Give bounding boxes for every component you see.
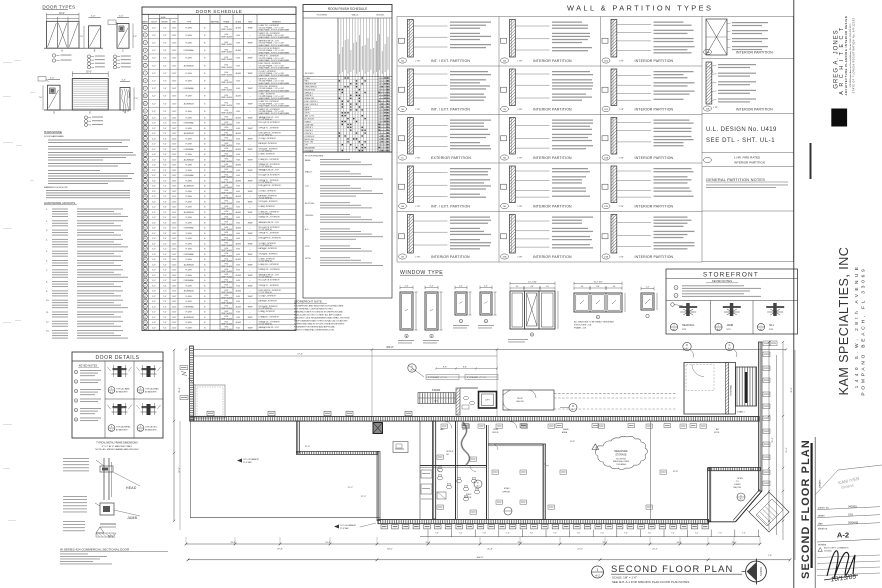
svg-text:HEAD: HEAD	[126, 486, 137, 490]
svg-text:ALUM: ALUM	[236, 164, 242, 167]
svg-text:3'-0": 3'-0"	[152, 96, 156, 98]
window type C	[453, 286, 472, 329]
svg-text:4" X 25" VIEW GL.: 4" X 25" VIEW GL.	[259, 135, 274, 137]
svg-text:7'-0": 7'-0"	[163, 228, 167, 230]
bottom dimension row2	[185, 537, 762, 545]
svg-text:1 3/4": 1 3/4"	[172, 317, 177, 319]
svg-text:7'-0": 7'-0"	[80, 36, 84, 38]
svg-text:TEMP GLASS: TEMP GLASS	[221, 212, 233, 215]
svg-text:FLUSH: FLUSH	[186, 222, 193, 224]
svg-text:7'-0": 7'-0"	[163, 306, 167, 308]
svg-text:HARDWARE GROUPS: HARDWARE GROUPS	[44, 201, 75, 205]
svg-text:FLUSH: FLUSH	[186, 96, 193, 98]
svg-text:LOBBY DR. - EXTERIOR: LOBBY DR. - EXTERIOR	[259, 159, 280, 161]
svg-text:3'-0": 3'-0"	[152, 149, 156, 151]
svg-text:ENGINEER FOR REVIEW AND APPROV: ENGINEER FOR REVIEW AND APPROVAL	[294, 326, 336, 329]
svg-text:ALUMINUM: ALUMINUM	[184, 211, 194, 214]
svg-text:3'-0": 3'-0"	[152, 43, 156, 45]
corridor S-curve wall	[461, 421, 469, 465]
svg-text:WAREHOUSE DR. - EXT.: WAREHOUSE DR. - EXT.	[259, 168, 280, 171]
svg-text:STAIR T DR. - EXTERIOR: STAIR T DR. - EXTERIOR	[259, 268, 281, 271]
svg-text:TEMP GLASS: TEMP GLASS	[221, 317, 233, 320]
svg-text:W SERIES 424 COMMERCIAL SECTIO: W SERIES 424 COMMERCIAL SECTIONAL DOOR	[60, 548, 130, 552]
svg-text:H.M.: H.M.	[236, 170, 240, 172]
svg-text:WHSE: WHSE	[563, 429, 569, 431]
svg-text:STOR.: STOR.	[305, 113, 311, 115]
svg-text:LOBBY - INTERIOR: LOBBY - INTERIOR	[259, 206, 276, 208]
svg-text:7'-0": 7'-0"	[163, 243, 167, 245]
svg-text:INTERIOR PARTITION: INTERIOR PARTITION	[533, 59, 572, 63]
svg-text:EXEC OFFICE 1: EXEC OFFICE 1	[305, 101, 318, 103]
svg-text:7'-0": 7'-0"	[163, 111, 167, 113]
svg-text:INT. / EXT. PARTITION: INT. / EXT. PARTITION	[431, 205, 470, 209]
svg-text:OFFICE 2: OFFICE 2	[305, 95, 313, 97]
door type A triple door elevation	[44, 13, 103, 53]
window type F three lite	[574, 282, 625, 330]
svg-text:A-2: A-2	[837, 531, 849, 540]
svg-text:STRUCTURE + DB: STRUCTURE + DB	[574, 325, 592, 327]
svg-text:7'-0": 7'-0"	[742, 533, 746, 535]
svg-text:FLUSH: FLUSH	[186, 128, 193, 130]
svg-text:RAIN GLASS DOORS TO MEET ALL A: RAIN GLASS DOORS TO MEET ALL APPLICABLE	[294, 314, 342, 317]
svg-text:3'-0": 3'-0"	[152, 301, 156, 303]
svg-text:TEMP GLASS: TEMP GLASS	[221, 128, 233, 131]
svg-text:1 3/4": 1 3/4"	[172, 207, 177, 209]
svg-text:WAREHOUSE DR. - EXT.: WAREHOUSE DR. - EXT.	[259, 326, 280, 329]
signature scrawl	[824, 551, 858, 584]
office labels	[440, 428, 754, 515]
svg-text:TEMP GLASS: TEMP GLASS	[221, 89, 233, 92]
svg-text:10: 10	[144, 96, 146, 98]
svg-text:TEMP: TEMP	[247, 128, 253, 130]
svg-text:5C: 5C	[401, 158, 404, 160]
svg-text:H.M.: H.M.	[236, 312, 240, 314]
svg-text:8'-8": 8'-8"	[463, 367, 467, 369]
svg-text:1 3/4": 1 3/4"	[172, 233, 177, 235]
svg-text:1 3/4": 1 3/4"	[172, 58, 177, 60]
svg-text:STAIR 1: STAIR 1	[305, 120, 312, 123]
svg-text:TEMP: TEMP	[247, 180, 253, 182]
svg-text:OFFICE: OFFICE	[502, 491, 511, 493]
svg-text:38: 38	[144, 249, 146, 251]
svg-text:OFFICE 1: OFFICE 1	[305, 92, 313, 94]
svg-text:INTERIOR PARTITION: INTERIOR PARTITION	[431, 255, 470, 259]
warning triangle	[592, 444, 599, 450]
svg-text:OVERHEAD: OVERHEAD	[184, 122, 195, 125]
svg-text:ALUM: ALUM	[236, 211, 242, 214]
svg-text:7'-0": 7'-0"	[163, 233, 167, 235]
svg-text:TEMP GLASS: TEMP GLASS	[221, 176, 233, 179]
diagonal corner wall	[708, 490, 762, 522]
svg-text:3'-0": 3'-0"	[152, 275, 156, 277]
svg-text:2'-4": 2'-4"	[430, 286, 434, 288]
svg-text:H.M.: H.M.	[236, 191, 240, 193]
svg-text:1 3/4": 1 3/4"	[172, 201, 177, 203]
svg-text:2 7/8": 2 7/8"	[517, 61, 522, 63]
svg-text:TYPICAL JAMB: TYPICAL JAMB	[116, 388, 130, 391]
svg-text:FRAME: FRAME	[223, 20, 230, 23]
svg-text:H.M.: H.M.	[236, 317, 240, 319]
svg-text:7'-0": 7'-0"	[163, 175, 167, 177]
cut of parapet note 2	[334, 523, 376, 530]
svg-text:7: 7	[145, 73, 146, 75]
svg-text:TEMP GLASS: TEMP GLASS	[221, 328, 233, 331]
svg-text:6: 6	[145, 65, 146, 67]
svg-text:TEMP: TEMP	[247, 243, 253, 245]
rear stair block outline	[684, 363, 736, 415]
svg-text:3'-0": 3'-0"	[152, 128, 156, 130]
svg-text:WALLS: WALLS	[352, 14, 359, 17]
svg-text:7'-0": 7'-0"	[435, 533, 439, 535]
svg-text:A-2: A-2	[110, 429, 113, 432]
svg-text:33: 33	[144, 222, 146, 224]
svg-text:4" X 25" VIEW GL.: 4" X 25" VIEW GL.	[259, 150, 274, 152]
titleblock data rows	[815, 465, 882, 576]
svg-text:FLUSH: FLUSH	[186, 233, 193, 235]
svg-text:7'-0": 7'-0"	[163, 154, 167, 156]
svg-text:INT. / EXT. PARTITION: INT. / EXT. PARTITION	[431, 108, 470, 112]
svg-text:4" X 25" VIEW GL.: 4" X 25" VIEW GL.	[259, 245, 274, 247]
svg-text:7'-0": 7'-0"	[134, 98, 138, 100]
svg-text:7'-0": 7'-0"	[163, 186, 167, 188]
svg-text:7'-0": 7'-0"	[163, 312, 167, 314]
svg-text:3'-0": 3'-0"	[152, 170, 156, 172]
svg-text:ALUM: ALUM	[236, 195, 242, 198]
svg-text:42: 42	[144, 270, 146, 272]
svg-text:H.M.: H.M.	[236, 103, 240, 105]
UL design note	[706, 127, 777, 144]
svg-text:2 7/8": 2 7/8"	[517, 158, 522, 160]
svg-text:7'-0": 7'-0"	[163, 65, 167, 67]
svg-text:HEAD FRAME - IN STUCK HARDWARE: HEAD FRAME - IN STUCK HARDWARE	[259, 74, 291, 77]
window tags along bottom wall	[381, 525, 709, 529]
svg-text:TEMP GLASS: TEMP GLASS	[221, 244, 233, 247]
svg-text:TEMP: TEMP	[247, 222, 253, 224]
svg-text:ALUM: ALUM	[236, 305, 242, 308]
svg-text:TYPICAL METAL FRAME DIMENSIONS: TYPICAL METAL FRAME DIMENSIONS	[96, 442, 138, 445]
svg-text:3'-0": 3'-0"	[152, 222, 156, 224]
svg-text:LOBBY: LOBBY	[734, 484, 741, 486]
svg-text:18'-0": 18'-0"	[387, 549, 393, 551]
svg-text:FLUSH: FLUSH	[186, 296, 193, 298]
svg-text:LOBBY - INTERIOR: LOBBY - INTERIOR	[259, 154, 276, 156]
svg-text:3'-0": 3'-0"	[152, 306, 156, 308]
svg-text:TEMP: TEMP	[247, 317, 253, 319]
svg-text:41: 41	[144, 264, 146, 266]
svg-text:HEAD FRAME - IN STUCK HARDWARE: HEAD FRAME - IN STUCK HARDWARE	[259, 29, 291, 32]
svg-text:46: 46	[144, 291, 146, 293]
tags above top wall	[207, 411, 412, 415]
svg-text:3'-0": 3'-0"	[152, 27, 156, 29]
svg-text:FLOORING: FLOORING	[317, 15, 328, 17]
door type E roll-up door elevation	[72, 71, 108, 114]
architect logo black square	[831, 109, 847, 127]
svg-text:HEAD FRAME - IN STUCK HARDWARE: HEAD FRAME - IN STUCK HARDWARE	[259, 44, 291, 47]
svg-text:sheet no.: sheet no.	[818, 528, 828, 531]
svg-text:WHSE: WHSE	[521, 425, 527, 427]
svg-text:H.M.: H.M.	[236, 217, 240, 219]
svg-text:1 3/4": 1 3/4"	[172, 291, 177, 293]
svg-text:ALUM: ALUM	[236, 26, 242, 29]
svg-text:1 3/4": 1 3/4"	[172, 254, 177, 256]
svg-text:EXEC OFFICE 2: EXEC OFFICE 2	[305, 104, 318, 106]
svg-text:7'-0": 7'-0"	[163, 191, 167, 193]
svg-text:37: 37	[144, 243, 146, 245]
svg-text:1 3/4": 1 3/4"	[172, 159, 177, 161]
svg-text:FLUSH: FLUSH	[186, 275, 193, 277]
svg-text:TEMP GLASS: TEMP GLASS	[221, 181, 233, 184]
svg-text:27'-0": 27'-0"	[577, 549, 583, 551]
svg-text:6: 6	[75, 419, 76, 421]
svg-text:53: 53	[144, 327, 146, 329]
circled marker left of rear stair	[683, 342, 694, 357]
svg-text:3'-0": 3'-0"	[152, 296, 156, 298]
svg-text:1 3/4": 1 3/4"	[172, 275, 177, 277]
svg-text:1 3/4": 1 3/4"	[172, 96, 177, 98]
floor plan title bubble	[592, 566, 604, 578]
svg-text:3'-0": 3'-0"	[152, 154, 156, 156]
svg-text:3'-8": 3'-8"	[596, 286, 600, 288]
svg-text:7'-0": 7'-0"	[163, 144, 167, 146]
svg-text:FLUSH: FLUSH	[186, 243, 193, 245]
svg-text:3-6: 3-6	[581, 286, 584, 288]
svg-text:TEMP: TEMP	[247, 285, 253, 287]
svg-text:TEMP GLASS: TEMP GLASS	[221, 312, 233, 315]
svg-text:4: 4	[75, 400, 76, 402]
second floor plan title	[611, 563, 742, 584]
roof area vertical reference lines	[372, 350, 497, 420]
short divider bar	[810, 143, 812, 179]
svg-text:TEMP GLASS: TEMP GLASS	[221, 155, 233, 158]
svg-text:1 3/4": 1 3/4"	[172, 144, 177, 146]
svg-text:H.M.: H.M.	[236, 301, 240, 303]
svg-text:ALUM: ALUM	[236, 242, 242, 245]
svg-text:1 3/4": 1 3/4"	[172, 270, 177, 272]
svg-text:TEMP GLASS: TEMP GLASS	[221, 265, 233, 268]
svg-text:4: 4	[145, 50, 146, 52]
svg-text:H.M.: H.M.	[236, 88, 240, 90]
svg-text:AT MASONRY: AT MASONRY	[145, 391, 157, 394]
svg-text:29: 29	[144, 201, 146, 203]
svg-text:10.: 10.	[46, 300, 49, 302]
svg-text:OFFICE 5: OFFICE 5	[305, 133, 313, 135]
door notes keyed circles below row 2	[84, 116, 103, 127]
svg-text:EXTERIOR PARTITION: EXTERIOR PARTITION	[431, 156, 471, 160]
svg-text:ARCHITECT: ARCHITECT	[839, 23, 845, 94]
hardware groups list	[44, 201, 128, 339]
architect info rotated text	[834, 16, 856, 96]
svg-text:1 3/4": 1 3/4"	[172, 111, 177, 113]
svg-text:ROLL UP DR. EXTERIOR: ROLL UP DR. EXTERIOR	[259, 280, 281, 282]
svg-text:4" X 25" VIEW GL.: 4" X 25" VIEW GL.	[259, 213, 274, 215]
svg-text:4" X 25" VIEW GL.: 4" X 25" VIEW GL.	[259, 119, 274, 121]
svg-text:BARRIER DOOR NOTE: BARRIER DOOR NOTE	[44, 186, 68, 189]
svg-text:7'-0": 7'-0"	[482, 533, 486, 535]
svg-text:HEAD FRAME - IN STUCK HARDWARE: HEAD FRAME - IN STUCK HARDWARE	[259, 59, 291, 62]
svg-text:KEYED NOTES: KEYED NOTES	[712, 279, 732, 283]
svg-text:1: 1	[597, 568, 599, 572]
svg-text:7'-0": 7'-0"	[163, 222, 167, 224]
svg-text:INTERIOR PARTITION: INTERIOR PARTITION	[635, 255, 674, 259]
svg-text:ARCHITECTURE PLANNING INTERI: ARCHITECTURE PLANNING INTERIOR DESIGN	[844, 16, 848, 96]
svg-text:AREA: AREA	[562, 431, 568, 434]
svg-text:OVERHEAD: OVERHEAD	[184, 227, 195, 230]
svg-text:HEAD FRAME - IN STUCK HARDWARE: HEAD FRAME - IN STUCK HARDWARE	[259, 89, 291, 92]
svg-text:3'-0": 3'-0"	[152, 212, 156, 214]
svg-text:12A: 12A	[604, 157, 608, 160]
svg-text:FLUSH: FLUSH	[186, 144, 193, 146]
svg-text:A-2: A-2	[110, 391, 113, 394]
svg-text:11A: 11A	[604, 60, 608, 63]
svg-text:3'-0": 3'-0"	[152, 117, 156, 119]
svg-text:SECOND FLOOR PLAN: SECOND FLOOR PLAN	[800, 439, 812, 579]
svg-text:1 3/4": 1 3/4"	[172, 165, 177, 167]
room finish notes box	[303, 152, 392, 298]
floor plan top dimension line	[185, 346, 787, 356]
svg-text:MEZZANINE: MEZZANINE	[305, 147, 316, 150]
north arrow	[742, 559, 767, 585]
svg-text:ALUMINUM: ALUMINUM	[184, 102, 194, 105]
svg-text:48: 48	[144, 301, 146, 303]
svg-text:1 3/4": 1 3/4"	[172, 285, 177, 287]
svg-text:OVERHEAD: OVERHEAD	[184, 174, 195, 177]
svg-text:TEMP: TEMP	[247, 327, 253, 329]
svg-text:1 3/4": 1 3/4"	[172, 249, 177, 251]
svg-text:13'-0": 13'-0"	[731, 542, 736, 544]
svg-text:TEMP GLASS: TEMP GLASS	[221, 307, 233, 310]
svg-text:ROLL UP DR. EXTERIOR: ROLL UP DR. EXTERIOR	[259, 122, 281, 124]
svg-text:7'-0": 7'-0"	[163, 43, 167, 45]
svg-text:7'-0": 7'-0"	[577, 533, 581, 535]
svg-text:3'-0": 3'-0"	[122, 80, 127, 82]
svg-text:1 3/4": 1 3/4"	[172, 322, 177, 324]
svg-text:3'-0": 3'-0"	[152, 285, 156, 287]
front strip walls near lift	[456, 388, 478, 415]
svg-text:3'-0": 3'-0"	[152, 259, 156, 261]
svg-text:7'-0": 7'-0"	[163, 217, 167, 219]
svg-text:ALL WINDOWS TO BE IMPACT RESIS: ALL WINDOWS TO BE IMPACT RESISTANT	[574, 321, 615, 324]
svg-text:TEMP: TEMP	[247, 306, 253, 308]
svg-text:7'-0": 7'-0"	[163, 270, 167, 272]
svg-text:7'-0": 7'-0"	[163, 280, 167, 282]
svg-text:7'-0": 7'-0"	[163, 301, 167, 303]
svg-text:A-2: A-2	[139, 429, 142, 432]
svg-text:8" PRECAST + 2" C.C.: 8" PRECAST + 2" C.C.	[467, 376, 487, 379]
svg-text:3'-0": 3'-0"	[152, 196, 156, 198]
svg-text:H.M.: H.M.	[236, 111, 240, 113]
svg-text:3-6: 3-6	[613, 286, 616, 288]
svg-text:FLUSH: FLUSH	[186, 165, 193, 167]
svg-text:27'-8" AFF: 27'-8" AFF	[243, 461, 253, 464]
svg-text:STAIR T DR. - EXTERIOR: STAIR T DR. - EXTERIOR	[259, 216, 281, 219]
svg-text:TEMP: TEMP	[247, 138, 253, 140]
cut of parapet note 1	[237, 458, 260, 464]
svg-text:OPEN: OPEN	[737, 478, 743, 480]
svg-text:1 3/4": 1 3/4"	[172, 212, 177, 214]
svg-text:25'-8": 25'-8"	[425, 542, 430, 544]
svg-text:INTERIOR PARTITION: INTERIOR PARTITION	[533, 255, 572, 259]
svg-text:EXEC OFFICE - INTERIOR: EXEC OFFICE - INTERIOR	[259, 185, 282, 187]
hardware notes text block	[44, 130, 136, 198]
svg-text:2'-4": 2'-4"	[646, 287, 650, 289]
svg-text:21'-2": 21'-2"	[652, 549, 658, 551]
svg-text:WALL & PARTITION TYPES: WALL & PARTITION TYPES	[567, 4, 713, 13]
open to lobby below label	[734, 478, 746, 501]
svg-text:3'-0": 3'-0"	[152, 88, 156, 90]
svg-text:INTERIOR PARTITION: INTERIOR PARTITION	[533, 108, 572, 112]
svg-text:ALUM: ALUM	[236, 227, 242, 230]
partition type cell col2 row5 (INTERIOR PARTITION)	[501, 215, 594, 260]
svg-text:10'-7 3/4": 10'-7 3/4"	[594, 282, 603, 284]
svg-text:TEMP: TEMP	[247, 296, 253, 298]
svg-text:ALUM: ALUM	[236, 132, 242, 135]
svg-text:3'-0": 3'-0"	[152, 111, 156, 113]
svg-text:19'-8": 19'-8"	[570, 441, 575, 443]
svg-text:25: 25	[144, 180, 146, 182]
svg-text:BELOW: BELOW	[734, 487, 741, 489]
svg-text:FLOOR FINISHES: FLOOR FINISHES	[305, 156, 324, 158]
svg-text:OFFICE 3: OFFICE 3	[305, 127, 313, 129]
svg-text:STOREFRONT NOTE:: STOREFRONT NOTE:	[294, 300, 323, 304]
svg-text:CONF. RM.: CONF. RM.	[305, 124, 315, 126]
svg-text:OVERHEAD: OVERHEAD	[184, 148, 195, 151]
svg-text:FLUSH: FLUSH	[186, 312, 193, 314]
right side vertical dimension lines	[768, 341, 795, 560]
svg-text:28: 28	[144, 196, 146, 198]
svg-text:16: 16	[144, 133, 146, 135]
svg-text:3'-0": 3'-0"	[152, 186, 156, 188]
svg-text:INTERIOR PARTITION: INTERIOR PARTITION	[734, 161, 765, 165]
svg-text:3'-0": 3'-0"	[152, 327, 156, 329]
svg-text:7'-0": 7'-0"	[163, 249, 167, 251]
svg-text:3'-0": 3'-0"	[152, 322, 156, 324]
svg-text:H.M.: H.M.	[236, 81, 240, 83]
svg-text:1 3/4": 1 3/4"	[172, 27, 177, 29]
plan left exterior wall	[190, 346, 194, 421]
svg-text:SPACES ALLOWED: SPACES ALLOWED	[613, 460, 630, 463]
titleblock edge line	[814, 437, 816, 588]
svg-text:H.M.: H.M.	[236, 123, 240, 125]
svg-text:TEMP: TEMP	[247, 88, 253, 90]
svg-text:7'-0": 7'-0"	[163, 180, 167, 182]
window type D	[478, 286, 497, 329]
lift shaft	[479, 392, 497, 409]
svg-text:TEMP GLASS: TEMP GLASS	[221, 139, 233, 142]
svg-text:AT MASONRY: AT MASONRY	[116, 391, 128, 394]
svg-text:H.M.: H.M.	[236, 65, 240, 67]
window type G	[641, 287, 657, 318]
titleblock frame line	[793, 0, 795, 588]
svg-text:H.M.: H.M.	[236, 154, 240, 156]
svg-text:7'-0": 7'-0"	[163, 138, 167, 140]
svg-text:1 3/4": 1 3/4"	[172, 170, 177, 172]
svg-text:5: 5	[145, 58, 146, 60]
svg-text:1 3/4": 1 3/4"	[172, 222, 177, 224]
svg-text:WALLS:: WALLS:	[305, 171, 313, 174]
svg-text:24'-4": 24'-4"	[325, 542, 330, 544]
svg-text:1 3/4": 1 3/4"	[172, 191, 177, 193]
svg-text:36: 36	[144, 238, 146, 240]
svg-text:1 3/4": 1 3/4"	[172, 175, 177, 177]
svg-text:TEMP GLASS: TEMP GLASS	[221, 233, 233, 236]
svg-text:7'-0": 7'-0"	[163, 322, 167, 324]
svg-text:ALUM: ALUM	[236, 72, 242, 75]
svg-text:4" X 25" VIEW GL.: 4" X 25" VIEW GL.	[259, 324, 274, 326]
svg-text:3: 3	[145, 43, 146, 45]
svg-text:FLUSH: FLUSH	[186, 27, 193, 29]
svg-text:45: 45	[144, 285, 146, 287]
office partition wall 2	[487, 425, 489, 519]
